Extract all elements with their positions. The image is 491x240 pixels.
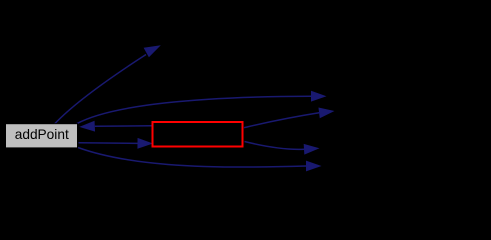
edge E6: red node -> right node (invisible), down-slanting [245, 142, 305, 150]
node (red outlined, callee) [153, 122, 243, 147]
edge E2: addPoint -> far right node (invisible), long top curve [77, 96, 312, 124]
arrowhead E6 [304, 144, 320, 155]
edge E5: red node -> right node (invisible), up-slanting [244, 113, 319, 128]
arrowhead E7 [306, 161, 322, 172]
arrowhead E4 [137, 138, 153, 149]
arrowhead E2 [311, 91, 327, 102]
edge E4: addPoint -> red node [79, 142, 138, 145]
edge E7: addPoint -> far right node (invisible), long bottom curve [78, 148, 306, 168]
arrowhead E5 [318, 108, 334, 119]
node addPoint (grey, current node) [6, 124, 78, 148]
svg-text:addPoint: addPoint [15, 127, 69, 142]
edge E1: addPoint -> upper node (invisible), curved [55, 55, 147, 125]
arrowhead E3 [79, 121, 95, 132]
edge E3: red node -> addPoint (arrow pointing left into addPoint) [95, 125, 153, 127]
arrowhead E1 [144, 45, 161, 57]
